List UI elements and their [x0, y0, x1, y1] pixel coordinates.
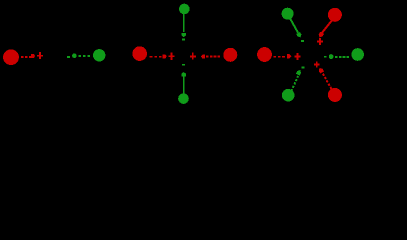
arrowhead D-topright [319, 32, 324, 38]
arrowhead D-left [287, 54, 291, 58]
minus charge D-bottomleft [301, 66, 304, 68]
arrowhead B [72, 53, 77, 58]
dashed force line A [21, 56, 31, 58]
ion C-bottom (green cation) [178, 93, 189, 104]
arrowhead D-bottomleft [296, 70, 301, 76]
plus charge D-topright [317, 38, 323, 45]
dashed force line C-left [150, 56, 162, 58]
ion D-topright (red anion) [328, 8, 342, 22]
plus charge D-left [295, 53, 301, 60]
dashed force line D-left [273, 56, 285, 58]
dashed force line B [79, 55, 91, 57]
arrowhead D-topleft [296, 32, 301, 38]
plus charge D-bottomright [314, 61, 320, 67]
solid force line D-topright [322, 21, 332, 33]
ion D-left (red anion) [257, 47, 272, 62]
solid force line C-top [183, 14, 185, 32]
ion D-bottomright (red anion) [328, 88, 342, 102]
dashed force line D-right [335, 56, 349, 58]
minus charge C-bottom [182, 64, 185, 66]
arrowhead C-top [182, 33, 186, 37]
ion C-top (green cation) [179, 4, 190, 15]
arrowhead C-right [201, 55, 205, 59]
arrowhead D-bottomright [319, 68, 324, 74]
arrowhead C-bottom [182, 72, 186, 76]
dashed force line D-bottomleft [291, 76, 298, 91]
ion A1 (red anion) [3, 49, 19, 65]
ion B1 (green cation) [93, 49, 105, 61]
ion C-right (red anion) [223, 48, 237, 62]
arrowhead C-left [163, 54, 167, 58]
minus charge D-topleft [301, 40, 304, 42]
dashed force line D-bottomright [323, 74, 332, 89]
ion D-right (green cation) [351, 48, 364, 61]
ion D-topleft (green cation) [282, 8, 294, 20]
arrowhead D-right [329, 54, 334, 59]
plus charge C-right [190, 53, 196, 60]
minus charge C-top [182, 39, 185, 41]
solid force line D-topleft [290, 19, 298, 33]
dashed force line C-right [206, 56, 220, 58]
plus charge C-left [168, 53, 174, 60]
ion C-left (red anion) [132, 46, 147, 61]
arrowhead A [31, 54, 35, 58]
minus charge B [67, 56, 70, 58]
plus charge A [37, 52, 43, 59]
solid force line C-bottom [183, 76, 185, 93]
minus charge D-right [324, 56, 327, 58]
ion D-bottomleft (green cation) [282, 89, 295, 102]
